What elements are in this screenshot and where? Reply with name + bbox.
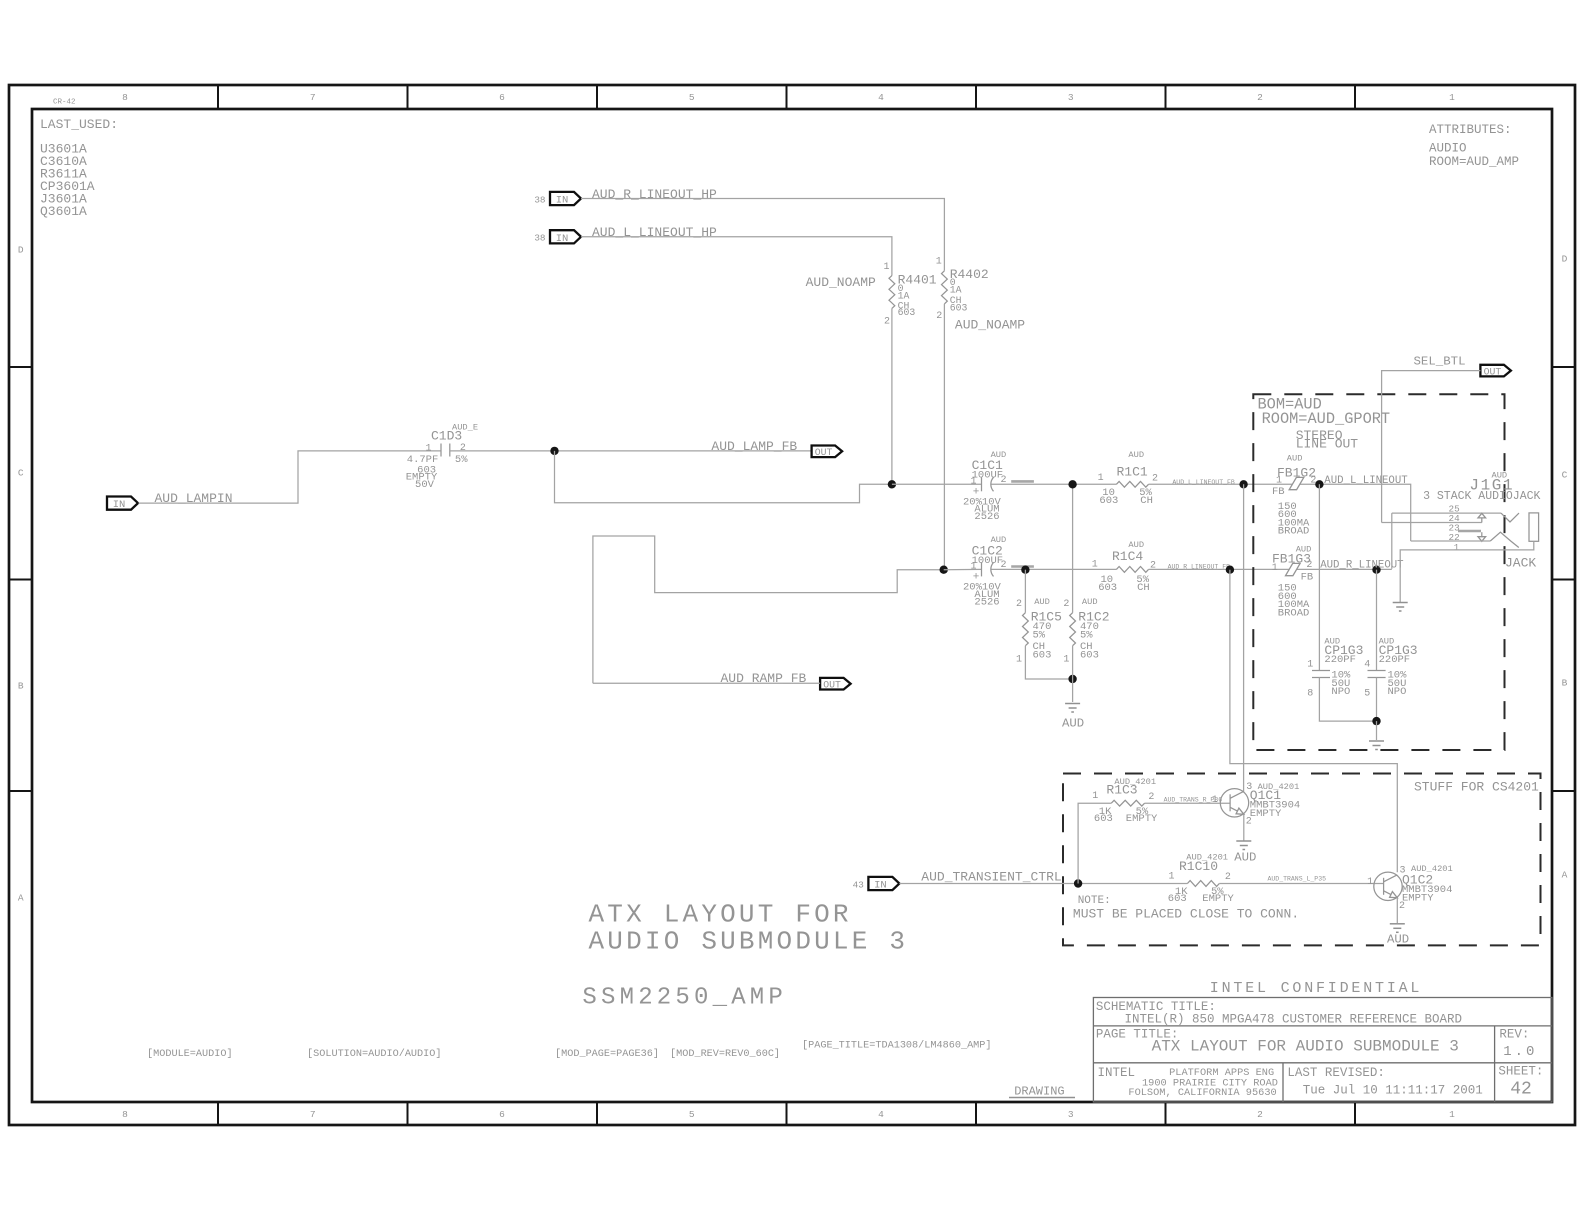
big title SSM2250_AMP bbox=[582, 985, 787, 1012]
svg-text:EMPTY: EMPTY bbox=[1126, 813, 1158, 825]
svg-text:NPO: NPO bbox=[1331, 686, 1350, 698]
svg-text:SHEET:: SHEET: bbox=[1498, 1064, 1543, 1078]
dashed group box BOM=AUD / STEREO LINE OUT bbox=[1253, 394, 1504, 750]
wire collector route to Q1C2 bbox=[1230, 570, 1397, 873]
wire Q1C2 emitter to ground bbox=[1396, 898, 1398, 923]
svg-text:2: 2 bbox=[884, 316, 890, 327]
svg-text:JACK: JACK bbox=[1505, 555, 1536, 570]
svg-text:STUFF FOR CS4201: STUFF FOR CS4201 bbox=[1414, 779, 1539, 794]
resistor R1C4 bbox=[1092, 540, 1156, 594]
svg-text:[PAGE_TITLE=TDA1308/LM4860_AMP: [PAGE_TITLE=TDA1308/LM4860_AMP] bbox=[802, 1039, 992, 1051]
svg-text:1: 1 bbox=[1307, 659, 1313, 670]
resistor R1C1 bbox=[1098, 450, 1158, 507]
svg-text:603: 603 bbox=[1098, 582, 1117, 594]
svg-text:Q3601A: Q3601A bbox=[40, 204, 87, 219]
wire AUD_R_LINEOUT to CP1G3b bbox=[1376, 570, 1378, 671]
svg-text:38: 38 bbox=[534, 233, 545, 244]
node AUD_RAMP at R4402 bbox=[940, 566, 948, 574]
svg-text:1: 1 bbox=[1367, 877, 1373, 888]
gray stub segment right of C1C2 bbox=[1011, 565, 1034, 568]
net label AUD_TRANS_R_PB6 (small) bbox=[1164, 797, 1223, 804]
grid column ticks bbox=[218, 85, 1355, 1125]
svg-text:C: C bbox=[18, 467, 24, 478]
svg-text:INTEL(R) 850 MPGA478 CUSTOMER: INTEL(R) 850 MPGA478 CUSTOMER REFERENCE … bbox=[1125, 1012, 1463, 1026]
wire jack pin25 riser to AUD_R_LINEOUT bbox=[1391, 513, 1393, 569]
svg-text:7: 7 bbox=[310, 1109, 316, 1120]
svg-text:1: 1 bbox=[1168, 872, 1174, 883]
svg-text:AUD: AUD bbox=[1082, 597, 1098, 607]
ferrite bead FB1G3 bbox=[1272, 544, 1313, 619]
grid row ticks bbox=[9, 367, 1575, 791]
ground AUD below Q1C1 bbox=[1234, 841, 1256, 864]
wire R1C10.2 to Q1C2 base bbox=[1219, 883, 1383, 885]
svg-text:603: 603 bbox=[1094, 813, 1113, 825]
svg-text:1: 1 bbox=[1212, 795, 1218, 806]
wire R1C3.2 to Q1C1 base bbox=[1145, 802, 1231, 804]
svg-text:AUD_TRANSIENT_CTRL: AUD_TRANSIENT_CTRL bbox=[921, 870, 1061, 885]
svg-text:6: 6 bbox=[499, 1109, 505, 1120]
ATTRIBUTES text block bbox=[1429, 123, 1519, 169]
input flag AUD_TRANSIENT_CTRL (sheet 43) bbox=[853, 877, 900, 892]
svg-text:REV:: REV: bbox=[1499, 1028, 1529, 1042]
wire R1C4.2 to FB1G3 bbox=[1149, 568, 1392, 570]
svg-text:[MOD_REV=REV0_60C]: [MOD_REV=REV0_60C] bbox=[670, 1048, 780, 1060]
svg-text:1: 1 bbox=[883, 262, 889, 273]
svg-text:LAST_USED:: LAST_USED: bbox=[40, 117, 118, 132]
node C1C2 line at R1C5 bbox=[1021, 566, 1029, 574]
svg-text:D: D bbox=[1562, 253, 1568, 264]
svg-text:CR-42: CR-42 bbox=[53, 99, 76, 107]
svg-text:IN: IN bbox=[874, 880, 887, 892]
svg-text:IN: IN bbox=[556, 233, 569, 245]
net label AUD_LAMP_FB bbox=[711, 439, 797, 454]
node AUD_TRANSIENT_CTRL branch bbox=[1074, 879, 1082, 887]
svg-text:220PF: 220PF bbox=[1324, 654, 1356, 666]
svg-text:DRAWING: DRAWING bbox=[1014, 1084, 1064, 1098]
net label AUD_R_LINEOUT_FB (small) bbox=[1168, 563, 1231, 570]
ground AUD below Q1C2 bbox=[1387, 924, 1409, 947]
svg-text:1: 1 bbox=[1092, 560, 1098, 571]
svg-text:IN: IN bbox=[556, 195, 569, 207]
svg-text:2: 2 bbox=[1063, 599, 1069, 610]
svg-text:R1C10: R1C10 bbox=[1179, 859, 1218, 874]
node AUD_LAMP at R4401 bbox=[888, 480, 896, 488]
net label AUD_R_LINEOUT_HP bbox=[592, 187, 717, 202]
LAST_USED text block bbox=[40, 117, 118, 219]
wire collector riser Q1C1 bbox=[1243, 484, 1245, 792]
svg-text:D: D bbox=[18, 244, 24, 255]
node AUD_L_LINEOUT_FB to Q1C1 collector bbox=[1239, 480, 1247, 488]
capacitor C1D3 bbox=[406, 422, 478, 491]
svg-text:1: 1 bbox=[1098, 473, 1104, 484]
wire AUD_RAMP_FB out bbox=[593, 682, 820, 684]
wire AUD_L_LINEOUT to CP1G3a bbox=[1318, 484, 1320, 670]
DRAWING link bbox=[1009, 1084, 1075, 1098]
svg-text:8: 8 bbox=[1307, 689, 1313, 700]
ground jack sleeve bbox=[1393, 603, 1408, 612]
net label AUD_L_LINEOUT_HP bbox=[592, 225, 717, 240]
svg-text:FOLSOM, CALIFORNIA 95630: FOLSOM, CALIFORNIA 95630 bbox=[1128, 1087, 1276, 1099]
INTEL CONFIDENTIAL bbox=[1210, 980, 1422, 997]
wire C1D3.2 / AUD_LAMP_FB bbox=[450, 450, 812, 452]
svg-text:CH: CH bbox=[1137, 582, 1150, 594]
transistor Q1C2 MMBT3904 bbox=[1367, 864, 1453, 912]
svg-text:1: 1 bbox=[1272, 563, 1278, 574]
net label AUD_TRANS_L_P35 (small) bbox=[1268, 875, 1327, 882]
svg-text:SEL_BTL: SEL_BTL bbox=[1414, 355, 1466, 369]
sheet id CR-42 bbox=[53, 99, 76, 107]
input flag AUD_R_LINEOUT_HP (sheet 38) bbox=[534, 192, 581, 207]
svg-text:[SOLUTION=AUDIO/AUDIO]: [SOLUTION=AUDIO/AUDIO] bbox=[307, 1048, 442, 1060]
label STEREO LINE OUT bbox=[1296, 428, 1359, 452]
node C1C1 line at R1C2 bbox=[1068, 480, 1076, 488]
node AUD_LAMP_FB junction bbox=[550, 447, 558, 455]
svg-text:3 STACK AUDIOJACK: 3 STACK AUDIOJACK bbox=[1423, 490, 1540, 503]
net label SEL_BTL bbox=[1414, 355, 1466, 369]
wire R4402.2 to AUD_RAMP node bbox=[943, 304, 945, 570]
node AUD_R_LINEOUT_FB to Q1C2 collector bbox=[1226, 566, 1234, 574]
svg-text:BROAD: BROAD bbox=[1278, 526, 1310, 538]
svg-text:603: 603 bbox=[1168, 893, 1187, 905]
svg-text:5: 5 bbox=[689, 1109, 695, 1120]
svg-text:1: 1 bbox=[1063, 654, 1069, 665]
wire AUD_L_LINEOUT_HP to R4401 bbox=[581, 237, 892, 276]
title block frame bbox=[1093, 998, 1552, 1103]
svg-text:5%: 5% bbox=[455, 454, 468, 466]
svg-text:AUD: AUD bbox=[1387, 933, 1409, 947]
svg-text:5: 5 bbox=[689, 92, 695, 103]
svg-text:5: 5 bbox=[1364, 689, 1370, 700]
wire AUD_R_LINEOUT_HP to R4402 bbox=[581, 199, 944, 271]
dashed group box STUFF FOR CS4201 bbox=[1063, 774, 1541, 946]
ground AUD below R1C2 bbox=[1062, 646, 1084, 731]
svg-text:1: 1 bbox=[1449, 1109, 1455, 1120]
output flag SEL_BTL bbox=[1480, 365, 1511, 378]
svg-text:7: 7 bbox=[310, 92, 316, 103]
svg-text:2: 2 bbox=[1148, 792, 1154, 803]
resistor R1C2 bbox=[1063, 484, 1109, 665]
sheet inner border bbox=[32, 109, 1552, 1102]
wire C1C1.2 to R1C1.1 bbox=[992, 483, 1117, 485]
svg-text:ATX LAYOUT FOR: ATX LAYOUT FOR bbox=[589, 899, 852, 929]
svg-text:AUD: AUD bbox=[1128, 450, 1144, 460]
svg-text:B: B bbox=[18, 680, 24, 691]
svg-text:8: 8 bbox=[122, 1109, 128, 1120]
resistor R1C3 bbox=[1092, 777, 1158, 825]
svg-text:AUD_L_LINEOUT_HP: AUD_L_LINEOUT_HP bbox=[592, 225, 717, 240]
svg-text:A: A bbox=[18, 892, 24, 903]
svg-text:AUD_LAMP_FB: AUD_LAMP_FB bbox=[711, 439, 797, 454]
svg-text:2: 2 bbox=[1225, 872, 1231, 883]
node AUD_R_LINEOUT junction bbox=[1372, 566, 1380, 574]
svg-text:4: 4 bbox=[878, 92, 884, 103]
wire CP1G3a.8 to ground node bbox=[1319, 678, 1376, 722]
svg-text:MUST BE PLACED CLOSE TO CONN.: MUST BE PLACED CLOSE TO CONN. bbox=[1073, 907, 1299, 922]
svg-text:A: A bbox=[1562, 869, 1568, 880]
wire AUD_RAMP_FB dogleg to C1C2.1 bbox=[593, 536, 944, 683]
svg-text:1: 1 bbox=[1092, 791, 1098, 802]
resistor R4401 bbox=[883, 262, 936, 327]
svg-text:[MODULE=AUDIO]: [MODULE=AUDIO] bbox=[147, 1048, 233, 1060]
svg-text:IN: IN bbox=[113, 499, 126, 511]
title block texts bbox=[1096, 1000, 1544, 1100]
svg-text:8: 8 bbox=[122, 92, 128, 103]
svg-text:AUD: AUD bbox=[1034, 597, 1050, 607]
resistor R1C10 bbox=[1168, 852, 1235, 905]
svg-text:1: 1 bbox=[1449, 92, 1455, 103]
svg-text:EMPTY: EMPTY bbox=[1250, 808, 1282, 820]
svg-text:2: 2 bbox=[1016, 599, 1022, 610]
wire R4401.2 to AUD_LAMP node bbox=[891, 308, 893, 484]
svg-text:AUD_L_LINEOUT: AUD_L_LINEOUT bbox=[1324, 475, 1408, 487]
grid column labels bbox=[122, 92, 1455, 1120]
svg-text:AUD_NOAMP: AUD_NOAMP bbox=[955, 318, 1025, 333]
output flag AUD_LAMP_FB bbox=[812, 446, 843, 459]
svg-text:FB: FB bbox=[1272, 486, 1285, 498]
svg-text:3: 3 bbox=[1068, 1109, 1074, 1120]
capacitor CP1G3 (left, 220PF) bbox=[1307, 637, 1363, 700]
svg-text:NOTE:: NOTE: bbox=[1078, 895, 1111, 907]
svg-text:LINE OUT: LINE OUT bbox=[1296, 437, 1359, 452]
svg-text:603: 603 bbox=[1033, 649, 1052, 661]
svg-text:EMPTY: EMPTY bbox=[1402, 893, 1434, 905]
capacitor C1C2 (polarized 100UF) bbox=[963, 535, 1007, 608]
wire R1C1.2 to FB1G2 bbox=[1149, 484, 1411, 541]
svg-text:AUD: AUD bbox=[1234, 850, 1256, 864]
svg-text:1.0: 1.0 bbox=[1503, 1044, 1537, 1060]
svg-text:AUD_L_LINEOUT_FB: AUD_L_LINEOUT_FB bbox=[1172, 479, 1235, 486]
wire AUD_LAMPIN to C1D3.1 bbox=[139, 451, 442, 503]
svg-text:ROOM=AUD_GPORT: ROOM=AUD_GPORT bbox=[1262, 410, 1391, 428]
capacitor C1C1 (polarized 100UF) bbox=[963, 450, 1007, 523]
wire AUD_TRANSIENT_CTRL to R1C10.1 bbox=[899, 883, 1187, 885]
net label AUD_NOAMP (right) bbox=[955, 318, 1025, 333]
input flag AUD_LAMPIN bbox=[107, 497, 138, 512]
svg-text:4: 4 bbox=[878, 1109, 884, 1120]
svg-text:1: 1 bbox=[1276, 475, 1282, 486]
svg-text:38: 38 bbox=[534, 194, 545, 205]
connector J1G1 3 STACK AUDIOJACK bbox=[1382, 471, 1541, 603]
wire C1C2.2 to R1C4.1 bbox=[992, 568, 1117, 570]
svg-text:AUD: AUD bbox=[1287, 453, 1303, 463]
svg-text:ROOM=AUD_AMP: ROOM=AUD_AMP bbox=[1429, 155, 1519, 169]
wire dogleg AUD_LAMP_FB to C1C1.1 bbox=[555, 451, 892, 503]
svg-text:SSM2250_AMP: SSM2250_AMP bbox=[582, 985, 787, 1012]
svg-text:[MOD_PAGE=PAGE36]: [MOD_PAGE=PAGE36] bbox=[555, 1048, 659, 1060]
net label AUD_LAMPIN bbox=[155, 491, 233, 506]
svg-text:BROAD: BROAD bbox=[1278, 607, 1310, 619]
ferrite bead FB1G2 bbox=[1272, 453, 1316, 537]
svg-text:4: 4 bbox=[1364, 659, 1370, 670]
svg-text:R1C1: R1C1 bbox=[1117, 464, 1148, 479]
svg-text:603: 603 bbox=[1080, 649, 1099, 661]
output flag AUD_RAMP_FB bbox=[820, 678, 851, 691]
svg-text:EMPTY: EMPTY bbox=[1202, 893, 1234, 905]
resistor R4402 bbox=[936, 257, 989, 323]
svg-text:AUD_R_LINEOUT_FB: AUD_R_LINEOUT_FB bbox=[1168, 563, 1231, 570]
svg-text:AUD_TRANS_L_P35: AUD_TRANS_L_P35 bbox=[1268, 875, 1327, 882]
svg-text:2: 2 bbox=[1306, 560, 1312, 571]
svg-text:2526: 2526 bbox=[974, 596, 999, 608]
svg-text:5%: 5% bbox=[1033, 630, 1046, 642]
grid row labels bbox=[18, 244, 1568, 903]
svg-text:1: 1 bbox=[1454, 542, 1460, 553]
svg-text:AUDIO: AUDIO bbox=[1429, 142, 1467, 156]
label BOM=AUD bbox=[1258, 396, 1391, 428]
node CP1G3 ground junction bbox=[1372, 717, 1380, 725]
net label AUD_TRANSIENT_CTRL bbox=[921, 870, 1061, 885]
svg-text:603: 603 bbox=[950, 302, 968, 313]
svg-text:CH: CH bbox=[1140, 495, 1153, 507]
net label AUD_R_LINEOUT bbox=[1320, 560, 1404, 572]
svg-text:AUD_LAMPIN: AUD_LAMPIN bbox=[155, 491, 233, 506]
svg-text:3: 3 bbox=[1068, 92, 1074, 103]
wire R1C5.1 to ground node bbox=[1025, 646, 1072, 679]
svg-text:6: 6 bbox=[499, 92, 505, 103]
svg-text:AUD_NOAMP: AUD_NOAMP bbox=[806, 275, 876, 290]
svg-text:603: 603 bbox=[1099, 495, 1118, 507]
net label AUD_L_LINEOUT_FB (small) bbox=[1172, 479, 1235, 486]
wire CP1G3b.5 to ground node bbox=[1376, 678, 1378, 722]
input flag AUD_L_LINEOUT_HP (sheet 38) bbox=[534, 230, 581, 245]
svg-text:2526: 2526 bbox=[974, 511, 999, 523]
svg-text:42: 42 bbox=[1510, 1080, 1532, 1100]
svg-text:OUT: OUT bbox=[1484, 366, 1502, 377]
svg-text:2: 2 bbox=[1246, 817, 1252, 828]
svg-text:2: 2 bbox=[1152, 473, 1158, 484]
wire node to C1C1.1 bbox=[892, 483, 982, 485]
svg-text:C: C bbox=[1562, 469, 1568, 480]
svg-text:R1C4: R1C4 bbox=[1112, 549, 1143, 564]
svg-text:1: 1 bbox=[1016, 654, 1022, 665]
net label AUD_RAMP_FB bbox=[721, 671, 807, 686]
svg-text:INTEL: INTEL bbox=[1098, 1066, 1136, 1080]
svg-text:INTEL CONFIDENTIAL: INTEL CONFIDENTIAL bbox=[1210, 980, 1422, 997]
svg-text:ATTRIBUTES:: ATTRIBUTES: bbox=[1429, 123, 1512, 137]
transistor Q1C1 MMBT3904 bbox=[1212, 782, 1300, 828]
svg-text:B: B bbox=[1562, 677, 1568, 688]
svg-text:603: 603 bbox=[898, 307, 916, 318]
svg-text:AUD_R_LINEOUT_HP: AUD_R_LINEOUT_HP bbox=[592, 187, 717, 202]
ground below CP1G3 bbox=[1369, 721, 1384, 749]
svg-text:FB: FB bbox=[1301, 572, 1314, 584]
svg-text:AUD_RAMP_FB: AUD_RAMP_FB bbox=[721, 671, 807, 686]
note text bbox=[1073, 895, 1299, 922]
net label AUD_L_LINEOUT bbox=[1324, 475, 1408, 487]
svg-text:OUT: OUT bbox=[823, 680, 841, 691]
svg-text:NPO: NPO bbox=[1388, 686, 1407, 698]
capacitor CP1G3 (right, 220PF) bbox=[1364, 637, 1417, 700]
svg-text:AUD: AUD bbox=[1062, 717, 1084, 731]
wire Q1C1 emitter to ground bbox=[1243, 815, 1245, 841]
svg-text:C1D3: C1D3 bbox=[431, 428, 462, 443]
svg-text:5%: 5% bbox=[1080, 630, 1093, 642]
svg-text:43: 43 bbox=[853, 879, 864, 890]
wire SEL_BTL to jack pin 24 bbox=[1382, 371, 1481, 523]
svg-text:R1C3: R1C3 bbox=[1106, 782, 1137, 797]
label STUFF FOR CS4201 bbox=[1414, 779, 1539, 794]
svg-text:220PF: 220PF bbox=[1379, 654, 1411, 666]
wire node to C1C2.1 bbox=[944, 568, 982, 570]
svg-text:ATX LAYOUT FOR AUDIO SUBMODULE: ATX LAYOUT FOR AUDIO SUBMODULE 3 bbox=[1152, 1037, 1459, 1055]
svg-text:Tue Jul 10 11:11:17 2001: Tue Jul 10 11:11:17 2001 bbox=[1303, 1083, 1483, 1097]
gray stub segment right of C1C1 bbox=[1011, 480, 1034, 483]
node AUD_L_LINEOUT junction bbox=[1315, 480, 1323, 488]
svg-text:2: 2 bbox=[1399, 901, 1405, 912]
svg-text:2: 2 bbox=[1257, 92, 1263, 103]
svg-text:2: 2 bbox=[460, 443, 466, 454]
svg-text:AUDIO SUBMODULE 3: AUDIO SUBMODULE 3 bbox=[589, 927, 909, 957]
big title ATX LAYOUT FOR AUDIO SUBMODULE 3 bbox=[589, 899, 909, 956]
svg-text:1: 1 bbox=[936, 257, 942, 268]
svg-text:50V: 50V bbox=[415, 479, 435, 491]
svg-text:OUT: OUT bbox=[815, 447, 833, 458]
svg-text:1: 1 bbox=[425, 443, 431, 454]
wire branch up to R1C3.1 bbox=[1078, 803, 1111, 883]
svg-text:2: 2 bbox=[1257, 1109, 1263, 1120]
attribute texts bottom bbox=[147, 1039, 992, 1060]
net label AUD_NOAMP (left) bbox=[806, 275, 876, 290]
svg-text:LAST REVISED:: LAST REVISED: bbox=[1287, 1066, 1385, 1080]
node R1C5/R1C2 ground junction bbox=[1068, 675, 1076, 683]
svg-text:2: 2 bbox=[936, 311, 942, 322]
resistor R1C5 bbox=[1016, 570, 1062, 666]
